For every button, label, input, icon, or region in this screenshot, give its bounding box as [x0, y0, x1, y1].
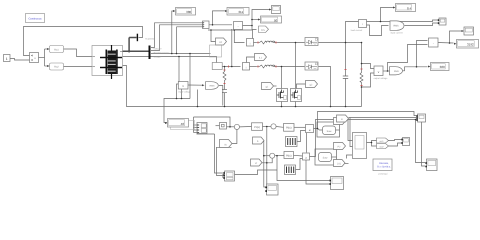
svg-text:380: 380	[186, 10, 191, 14]
svg-text:50: 50	[274, 18, 278, 22]
svg-text:PI(s): PI(s)	[286, 155, 292, 158]
svg-text:RMS: RMS	[393, 25, 399, 28]
svg-text:input voltage: input voltage	[178, 91, 191, 94]
svg-text:PI(s): PI(s)	[286, 127, 292, 130]
svg-text:<RectifierVoltage>: <RectifierVoltage>	[153, 52, 171, 55]
svg-text:Vr: Vr	[255, 162, 258, 165]
svg-text:1: 1	[6, 57, 8, 61]
svg-text:3192: 3192	[467, 43, 474, 47]
svg-text:output voltage: output voltage	[374, 77, 389, 80]
svg-text:<Current>: <Current>	[145, 38, 156, 41]
svg-text:load current: load current	[351, 29, 363, 32]
svg-text:·: ·	[237, 24, 238, 29]
svg-text:powergui: powergui	[379, 172, 388, 175]
svg-text:RMS: RMS	[394, 70, 399, 73]
svg-text:PI(s): PI(s)	[254, 126, 260, 129]
svg-text:311: 311	[238, 10, 243, 14]
svg-text:8.4: 8.4	[407, 6, 412, 10]
svg-text:Ts = 5e-06 s.: Ts = 5e-06 s.	[377, 166, 391, 169]
svg-text:input current: input current	[390, 32, 403, 35]
svg-text:P/S: P/S	[261, 29, 265, 32]
svg-text:380: 380	[440, 65, 445, 69]
svg-text:<voltage>: <voltage>	[153, 56, 163, 59]
svg-text:<Voltage>: <Voltage>	[153, 48, 163, 51]
svg-text:Saw: Saw	[323, 157, 328, 160]
svg-text:RMS: RMS	[210, 85, 215, 88]
svg-text:48: 48	[181, 122, 185, 126]
svg-text:[A]: [A]	[338, 163, 341, 166]
svg-text:Saw: Saw	[327, 130, 332, 133]
svg-text:Continuous: Continuous	[28, 18, 42, 21]
svg-text:Ra1: Ra1	[54, 49, 59, 52]
svg-text:·: ·	[433, 41, 434, 46]
svg-text:Ra2: Ra2	[54, 66, 59, 69]
